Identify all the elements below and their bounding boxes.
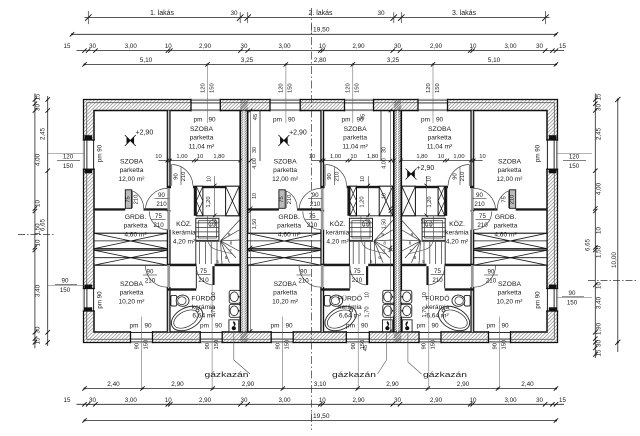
window bottom unit3 roomC 90 bbox=[489, 331, 511, 343]
svg-text:8: 8 bbox=[409, 241, 412, 246]
shaft box 1 with double X bbox=[350, 186, 357, 216]
svg-text:10: 10 bbox=[165, 43, 172, 50]
svg-text:SZOBA: SZOBA bbox=[120, 281, 144, 288]
svg-text:150: 150 bbox=[63, 163, 74, 170]
window bottom unit1 bath 90 bbox=[200, 331, 222, 343]
svg-text:75: 75 bbox=[434, 268, 441, 275]
svg-text:19,50: 19,50 bbox=[313, 413, 330, 420]
window bottom unit1 roomC 90 bbox=[131, 331, 153, 343]
svg-text:7: 7 bbox=[229, 249, 232, 254]
svg-text:210: 210 bbox=[153, 222, 164, 229]
svg-text:210: 210 bbox=[486, 277, 497, 284]
svg-text:90: 90 bbox=[174, 173, 180, 179]
svg-text:10: 10 bbox=[479, 154, 485, 160]
svg-text:10: 10 bbox=[207, 176, 213, 182]
svg-text:3,10: 3,10 bbox=[314, 381, 327, 388]
svg-text:90: 90 bbox=[312, 192, 319, 199]
stair winder fan bbox=[221, 220, 241, 241]
svg-text:FÜRDŐ: FÜRDŐ bbox=[338, 294, 362, 303]
svg-text:75: 75 bbox=[501, 196, 507, 202]
svg-text:75: 75 bbox=[155, 213, 162, 220]
svg-text:parketta: parketta bbox=[343, 135, 367, 142]
shaft dim line 1,20 bbox=[367, 176, 369, 217]
svg-text:210: 210 bbox=[352, 277, 363, 284]
svg-text:90: 90 bbox=[276, 343, 282, 349]
svg-text:pm 90: pm 90 bbox=[97, 144, 104, 162]
svg-text:210: 210 bbox=[181, 172, 187, 182]
wall roomB bottom bbox=[167, 186, 240, 188]
svg-text:10: 10 bbox=[155, 154, 161, 160]
svg-text:pm: pm bbox=[271, 323, 280, 330]
stair step numbers bbox=[425, 221, 432, 228]
svg-text:5: 5 bbox=[422, 259, 425, 264]
svg-text:90: 90 bbox=[285, 323, 293, 330]
party wall 2 (hatched double wall) bbox=[394, 100, 402, 343]
closet row1 GRDB with X bbox=[474, 233, 547, 249]
black cap left wall window2 bottom jamb bbox=[85, 307, 93, 311]
wall roomA bottom bbox=[471, 208, 547, 210]
unit3 west interior vertical dim chain bbox=[390, 111, 392, 332]
svg-text:1,20: 1,20 bbox=[427, 196, 433, 207]
svg-text:pm: pm bbox=[194, 117, 203, 124]
stair treads lower flight (vertical) bbox=[440, 242, 442, 264]
svg-text:75: 75 bbox=[200, 268, 207, 275]
door GRDB-corridor leaf+arc bbox=[321, 211, 324, 229]
svg-text:GRDB.: GRDB. bbox=[495, 214, 517, 221]
svg-text:150: 150 bbox=[431, 340, 437, 350]
svg-text:10: 10 bbox=[438, 154, 444, 160]
gas boiler bbox=[229, 320, 239, 332]
svg-text:pm: pm bbox=[130, 323, 139, 330]
svg-text:210: 210 bbox=[477, 222, 488, 229]
svg-text:90: 90 bbox=[501, 323, 509, 330]
svg-text:45: 45 bbox=[253, 114, 259, 120]
svg-text:90: 90 bbox=[492, 343, 498, 349]
left dimension chain subtotals bbox=[47, 96, 49, 346]
dimension row bottom 3 - 19,50 overall bbox=[85, 420, 557, 422]
svg-text:5: 5 bbox=[370, 259, 373, 264]
svg-text:90: 90 bbox=[300, 269, 307, 276]
svg-text:75: 75 bbox=[126, 196, 132, 202]
svg-text:1,00: 1,00 bbox=[330, 154, 341, 160]
svg-text:120: 120 bbox=[426, 83, 432, 93]
svg-text:1,80: 1,80 bbox=[416, 154, 427, 160]
gas boiler bbox=[383, 320, 393, 332]
window bottom unit2 bath 90 bbox=[346, 331, 369, 343]
svg-text:3. lakás: 3. lakás bbox=[452, 10, 477, 17]
shaft box 2 with X bbox=[402, 186, 416, 216]
center vertical dash-dot axis bbox=[311, 8, 313, 430]
wall toilet nook bbox=[167, 288, 196, 290]
svg-text:90: 90 bbox=[147, 269, 154, 276]
svg-text:pm: pm bbox=[346, 323, 355, 330]
bathtub bbox=[434, 301, 474, 335]
svg-text:15: 15 bbox=[64, 43, 71, 50]
window left roomA1 120 bbox=[83, 140, 95, 169]
washbasin 1 bbox=[229, 290, 240, 303]
svg-text:4,00: 4,00 bbox=[35, 153, 42, 166]
closet row2 roomC with X bbox=[248, 250, 321, 265]
stair treads upper flight (horizontal) bbox=[422, 222, 445, 224]
stair winder fan bbox=[374, 220, 394, 241]
svg-text:1,00: 1,00 bbox=[453, 154, 464, 160]
svg-text:2,90: 2,90 bbox=[386, 381, 399, 388]
door bath leaf+arc bbox=[366, 266, 368, 285]
svg-text:10,20 m²: 10,20 m² bbox=[272, 299, 299, 306]
level mark +2,90 bbox=[406, 169, 417, 180]
svg-text:10: 10 bbox=[422, 292, 428, 298]
svg-text:15: 15 bbox=[596, 349, 603, 356]
svg-text:150: 150 bbox=[209, 83, 215, 93]
svg-text:6,65: 6,65 bbox=[40, 218, 47, 231]
svg-text:5,10: 5,10 bbox=[140, 57, 153, 64]
svg-text:3,40: 3,40 bbox=[35, 284, 42, 297]
right overall 10,00 line bbox=[617, 100, 619, 353]
svg-text:pm 90: pm 90 bbox=[97, 291, 104, 309]
window right roomA3 120 bbox=[546, 140, 558, 169]
svg-text:3,25: 3,25 bbox=[387, 57, 400, 64]
svg-text:4,60 m²: 4,60 m² bbox=[494, 232, 517, 239]
svg-text:7: 7 bbox=[383, 249, 386, 254]
svg-text:10: 10 bbox=[319, 397, 326, 404]
svg-text:9: 9 bbox=[411, 232, 414, 237]
closet partition by stair bbox=[194, 186, 197, 216]
svg-text:10: 10 bbox=[210, 222, 216, 228]
svg-text:SZOBA: SZOBA bbox=[498, 281, 522, 288]
level mark +2,90 bbox=[125, 135, 136, 146]
svg-text:pm: pm bbox=[487, 323, 496, 330]
partition wall roomA/corridor bbox=[471, 111, 474, 333]
svg-text:10: 10 bbox=[165, 397, 172, 404]
svg-text:SZOBA: SZOBA bbox=[344, 126, 368, 133]
svg-text:30: 30 bbox=[89, 397, 96, 404]
svg-text:6: 6 bbox=[225, 255, 228, 260]
svg-text:150: 150 bbox=[501, 340, 507, 350]
svg-text:2,45: 2,45 bbox=[40, 127, 47, 140]
svg-text:2. lakás: 2. lakás bbox=[308, 10, 333, 17]
door roomA-GRDB leaf bbox=[279, 190, 285, 209]
svg-text:90: 90 bbox=[62, 278, 69, 285]
svg-text:120: 120 bbox=[200, 83, 206, 93]
svg-text:gázkazán: gázkazán bbox=[332, 370, 376, 379]
wall roomB bottom bbox=[321, 186, 394, 188]
svg-text:7: 7 bbox=[409, 249, 412, 254]
exterior wall inner outline bbox=[94, 111, 547, 333]
svg-text:parketta: parketta bbox=[120, 290, 144, 297]
svg-text:10: 10 bbox=[596, 227, 603, 234]
stair lower flight bbox=[444, 240, 446, 264]
svg-text:1,20: 1,20 bbox=[206, 196, 212, 207]
svg-text:150: 150 bbox=[355, 83, 361, 93]
svg-text:210: 210 bbox=[134, 195, 140, 205]
svg-text:30: 30 bbox=[377, 10, 385, 17]
unit 2 interior geometry (translated copy) bbox=[248, 111, 394, 336]
svg-text:parketta: parketta bbox=[120, 167, 144, 174]
svg-text:+2,90: +2,90 bbox=[289, 130, 307, 137]
closet row1 GRDB with X bbox=[94, 233, 167, 249]
svg-text:10: 10 bbox=[364, 292, 370, 298]
svg-text:10: 10 bbox=[211, 292, 217, 298]
top window axis leaders bbox=[207, 64, 209, 123]
svg-text:kerámia: kerámia bbox=[426, 304, 450, 311]
svg-text:75: 75 bbox=[279, 196, 285, 202]
svg-text:30: 30 bbox=[536, 397, 543, 404]
svg-text:SZOBA: SZOBA bbox=[120, 159, 144, 166]
left dimension chain detailed bbox=[34, 94, 36, 349]
right dimension chain detailed bbox=[594, 94, 596, 359]
svg-text:15: 15 bbox=[35, 93, 42, 100]
svg-text:kerámia: kerámia bbox=[172, 230, 196, 237]
svg-text:SZOBA: SZOBA bbox=[274, 281, 298, 288]
svg-text:15: 15 bbox=[559, 43, 566, 50]
unit 1 interior geometry bbox=[94, 111, 240, 336]
svg-text:parketta: parketta bbox=[494, 223, 518, 230]
svg-text:8: 8 bbox=[383, 241, 386, 246]
window bottom unit3 bath 90 bbox=[419, 331, 441, 343]
svg-text:10,00: 10,00 bbox=[611, 252, 618, 268]
svg-text:210: 210 bbox=[298, 277, 309, 284]
wall roomA bottom bbox=[94, 208, 170, 210]
svg-text:parketta: parketta bbox=[498, 167, 522, 174]
svg-text:6,64 m²: 6,64 m² bbox=[426, 313, 449, 320]
door roomC leaf+arc bbox=[167, 265, 170, 287]
svg-text:45: 45 bbox=[361, 114, 367, 120]
door opening punches in partition bbox=[167, 188, 171, 210]
svg-text:120: 120 bbox=[569, 154, 580, 161]
svg-text:kerámia: kerámia bbox=[445, 230, 469, 237]
svg-text:10,20 m²: 10,20 m² bbox=[496, 299, 523, 306]
shaft dim line 1,20 bbox=[214, 176, 216, 217]
svg-text:2,90: 2,90 bbox=[242, 381, 255, 388]
door roomA in partition leaf+arc bbox=[167, 188, 170, 210]
washbasin 2 bbox=[401, 304, 412, 317]
svg-text:1,50: 1,50 bbox=[382, 219, 388, 230]
svg-text:30: 30 bbox=[596, 104, 603, 111]
svg-text:pm 90: pm 90 bbox=[535, 144, 542, 162]
svg-text:90: 90 bbox=[208, 117, 216, 124]
svg-text:2,80: 2,80 bbox=[314, 57, 327, 64]
svg-text:4,00: 4,00 bbox=[596, 182, 603, 195]
svg-text:12,00 m²: 12,00 m² bbox=[496, 176, 523, 183]
svg-text:30: 30 bbox=[35, 104, 42, 111]
level mark +2,90 bbox=[278, 135, 289, 146]
unit2 west interior vertical dim chain bbox=[250, 111, 252, 332]
dimension row 1 - lakas line bbox=[85, 17, 550, 19]
partition wall roomA/corridor bbox=[321, 111, 324, 333]
svg-text:parketta: parketta bbox=[124, 223, 148, 230]
window top unit1 roomB 120 bbox=[191, 99, 220, 112]
shaft zone bottom edge bbox=[401, 215, 445, 217]
window top unit2 roomA 120 bbox=[270, 99, 300, 112]
svg-text:pm: pm bbox=[200, 323, 209, 330]
svg-text:210: 210 bbox=[198, 277, 209, 284]
svg-text:parketta: parketta bbox=[498, 290, 522, 297]
gas boiler bbox=[402, 320, 412, 332]
bottom window axis leaders and labels bbox=[141, 317, 143, 389]
svg-text:4,60 m²: 4,60 m² bbox=[124, 232, 147, 239]
svg-text:210: 210 bbox=[460, 172, 466, 182]
svg-text:11,04 m²: 11,04 m² bbox=[427, 144, 453, 151]
svg-text:2,90: 2,90 bbox=[352, 397, 365, 404]
svg-text:1,70: 1,70 bbox=[211, 306, 217, 317]
svg-text:90: 90 bbox=[361, 323, 369, 330]
svg-text:3,00: 3,00 bbox=[504, 397, 517, 404]
window top unit2 roomB 120 bbox=[345, 99, 374, 112]
svg-text:90: 90 bbox=[488, 269, 495, 276]
washbasin 2 bbox=[383, 304, 394, 317]
svg-text:30: 30 bbox=[394, 397, 401, 404]
gazkazan label unit3 bbox=[407, 332, 409, 362]
svg-text:15: 15 bbox=[559, 397, 566, 404]
stair lower flight bbox=[348, 240, 350, 264]
svg-text:2,90: 2,90 bbox=[430, 397, 443, 404]
window bottom unit2 roomC 90 bbox=[271, 331, 293, 343]
black cap right wall window1 bottom jamb bbox=[549, 169, 557, 173]
toilet bbox=[171, 295, 177, 306]
black cap left wall window1 top jamb bbox=[85, 135, 93, 140]
wall toilet nook bbox=[321, 288, 350, 290]
svg-text:120: 120 bbox=[63, 154, 74, 161]
door bath leaf+arc bbox=[212, 266, 214, 285]
svg-text:150: 150 bbox=[435, 83, 441, 93]
wall stair-hall bottom bbox=[167, 264, 240, 267]
svg-text:2,90: 2,90 bbox=[457, 381, 470, 388]
svg-text:pm: pm bbox=[417, 323, 426, 330]
gazkazan label unit2 bbox=[386, 332, 388, 360]
svg-text:90: 90 bbox=[453, 173, 459, 179]
svg-text:1,80: 1,80 bbox=[213, 154, 224, 160]
stair walking line with step 10 circle bbox=[207, 216, 233, 255]
svg-text:15: 15 bbox=[596, 93, 603, 100]
svg-text:90: 90 bbox=[431, 323, 439, 330]
svg-text:150: 150 bbox=[143, 340, 149, 350]
corridor side jamb line bbox=[444, 266, 446, 288]
svg-text:parketta: parketta bbox=[273, 167, 297, 174]
bathtub bbox=[321, 301, 361, 335]
svg-text:10: 10 bbox=[197, 154, 203, 160]
svg-text:kerámia: kerámia bbox=[338, 304, 362, 311]
wall roomB bottom bbox=[401, 186, 474, 188]
svg-text:30: 30 bbox=[382, 147, 388, 153]
shaft box 2 with X bbox=[226, 186, 240, 216]
svg-text:pm 90: pm 90 bbox=[535, 291, 542, 309]
svg-text:2,45: 2,45 bbox=[596, 127, 603, 140]
door GRDB-corridor leaf+arc bbox=[167, 211, 170, 229]
svg-text:5,10: 5,10 bbox=[488, 57, 501, 64]
stair treads lower flight (vertical) bbox=[199, 242, 201, 264]
svg-text:1,70: 1,70 bbox=[364, 306, 370, 317]
svg-text:4,00: 4,00 bbox=[382, 158, 388, 169]
dimension row bottom 1 - window axis chain bbox=[85, 388, 557, 390]
stair walking line with step 10 circle bbox=[361, 216, 387, 255]
exterior wall outer outline bbox=[84, 100, 558, 343]
svg-text:90: 90 bbox=[144, 323, 152, 330]
wall roomA bottom bbox=[248, 208, 324, 210]
corridor side jamb line bbox=[349, 266, 351, 288]
svg-text:kerámia: kerámia bbox=[326, 230, 350, 237]
shaft box 1 with double X bbox=[438, 186, 445, 216]
unit 3 interior geometry (mirrored copy) bbox=[401, 111, 547, 336]
svg-text:KÖZ.: KÖZ. bbox=[449, 220, 465, 228]
svg-text:30: 30 bbox=[241, 43, 248, 50]
svg-text:90: 90 bbox=[288, 117, 296, 124]
svg-text:1,00: 1,00 bbox=[176, 154, 187, 160]
svg-text:90: 90 bbox=[436, 117, 444, 124]
stair dimension line unit 3 bbox=[400, 160, 483, 162]
svg-text:10: 10 bbox=[382, 193, 388, 199]
svg-text:6,65: 6,65 bbox=[584, 238, 591, 251]
svg-text:30: 30 bbox=[252, 147, 258, 153]
exterior wall band (hatched) bbox=[84, 100, 558, 343]
door roomA-GRDB leaf bbox=[125, 190, 131, 209]
door roomB leaf+arc bbox=[469, 164, 471, 186]
svg-text:90: 90 bbox=[158, 192, 165, 199]
svg-text:30: 30 bbox=[536, 43, 543, 50]
stair winder fan bbox=[401, 220, 421, 241]
svg-text:75: 75 bbox=[354, 268, 361, 275]
svg-text:11,04 m²: 11,04 m² bbox=[189, 144, 215, 151]
corridor side jamb line bbox=[195, 266, 197, 288]
svg-text:30: 30 bbox=[89, 43, 96, 50]
svg-text:12,00 m²: 12,00 m² bbox=[118, 176, 145, 183]
svg-text:120: 120 bbox=[346, 83, 352, 93]
closet row2 roomC with X bbox=[94, 250, 167, 265]
svg-text:75: 75 bbox=[309, 213, 316, 220]
svg-text:4,00: 4,00 bbox=[252, 158, 258, 169]
svg-text:2,90: 2,90 bbox=[430, 43, 443, 50]
svg-text:210: 210 bbox=[287, 195, 293, 205]
svg-text:6: 6 bbox=[414, 255, 417, 260]
svg-text:gázkazán: gázkazán bbox=[205, 370, 249, 379]
svg-text:10: 10 bbox=[319, 43, 326, 50]
svg-text:6,64 m²: 6,64 m² bbox=[339, 313, 362, 320]
svg-text:10: 10 bbox=[596, 282, 603, 289]
svg-text:15: 15 bbox=[64, 397, 71, 404]
wall stair-hall bottom bbox=[321, 264, 394, 267]
partition wall roomA/corridor bbox=[167, 111, 170, 333]
svg-text:210: 210 bbox=[145, 277, 156, 284]
svg-text:150: 150 bbox=[569, 163, 580, 170]
svg-text:30: 30 bbox=[394, 43, 401, 50]
shaft box 1 with double X bbox=[196, 186, 203, 216]
door GRDB-corridor leaf+arc bbox=[471, 211, 474, 229]
closet row1 GRDB with X bbox=[248, 233, 321, 249]
svg-text:parketta: parketta bbox=[190, 135, 214, 142]
stair lower flight bbox=[195, 240, 197, 264]
stair dimension line unit 1 bbox=[158, 160, 241, 162]
svg-text:GRDB.: GRDB. bbox=[125, 214, 147, 221]
door roomA-GRDB leaf bbox=[509, 190, 515, 209]
svg-text:210: 210 bbox=[509, 195, 515, 205]
svg-text:90: 90 bbox=[569, 290, 576, 297]
svg-text:10: 10 bbox=[470, 397, 477, 404]
closet row2 roomC with X bbox=[474, 250, 547, 265]
stair treads lower flight (vertical) bbox=[352, 242, 354, 264]
svg-text:1,50: 1,50 bbox=[596, 245, 603, 258]
svg-text:parketta: parketta bbox=[277, 223, 301, 230]
svg-text:3,00: 3,00 bbox=[278, 43, 291, 50]
shaft zone bottom edge bbox=[350, 215, 394, 217]
svg-text:75: 75 bbox=[479, 213, 486, 220]
svg-text:1,70: 1,70 bbox=[422, 306, 428, 317]
svg-text:6: 6 bbox=[378, 255, 381, 260]
svg-text:19,50: 19,50 bbox=[313, 27, 330, 34]
closet partition by stair bbox=[445, 186, 448, 216]
washbasin 1 bbox=[383, 290, 394, 303]
door roomC leaf+arc bbox=[471, 265, 474, 287]
window left roomC1 90 bbox=[83, 289, 95, 312]
svg-text:SZOBA: SZOBA bbox=[428, 126, 452, 133]
